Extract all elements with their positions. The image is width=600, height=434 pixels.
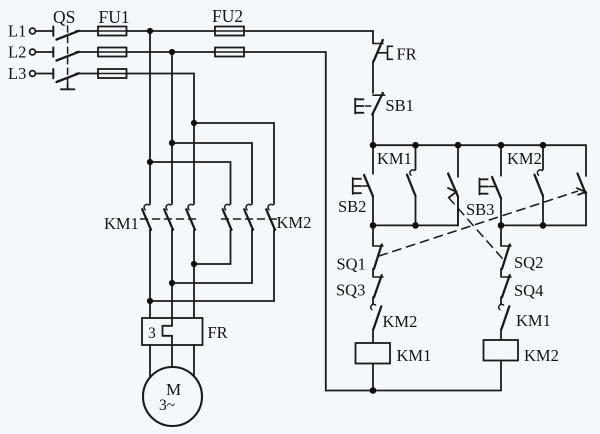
KM1 main linkage dashed [141, 218, 200, 220]
wire KM1 coil to bottom bus [372, 364, 374, 391]
limit switch SQ3 NC [373, 275, 383, 304]
wire branch2 upper [415, 145, 417, 169]
wire L2 to KM2 pole2 [172, 143, 252, 204]
wire L1 FU1 to FU2 [127, 30, 216, 32]
wire control top bus [373, 144, 586, 146]
node L1 terminal [30, 28, 36, 34]
SB1 actuator E [355, 99, 371, 114]
wire L2 to QS [36, 51, 54, 53]
wire FR to motor left [149, 345, 151, 377]
wire left rail [325, 52, 327, 391]
switch QS pole 1 [53, 27, 79, 40]
svg-text:SQ4: SQ4 [514, 281, 543, 300]
wire L1 to QS [36, 30, 54, 32]
SQ2 NO arrow [448, 188, 456, 198]
contactor KM2 main contact 3 [266, 204, 275, 301]
wire bottom bus [326, 390, 501, 392]
svg-text:SB3: SB3 [466, 200, 494, 219]
svg-text:KM1: KM1 [397, 346, 432, 365]
wire L3 FU1 to corner [127, 73, 195, 75]
wire L2 FU2 to left rail [244, 51, 326, 53]
svg-text:SQ2: SQ2 [514, 253, 543, 272]
pushbutton SB3 NO [492, 177, 501, 225]
FR heater element [163, 318, 173, 345]
wire branch3 upper [457, 145, 459, 177]
svg-text:FU2: FU2 [212, 6, 243, 26]
svg-text:KM2: KM2 [277, 213, 312, 232]
fuse FU1 pole3 [98, 69, 127, 78]
wire FR to motor mid [171, 345, 173, 367]
limit switch SQ2 NC [501, 245, 511, 277]
wire branch5 upper [542, 145, 544, 169]
FR heater hook symbol [378, 46, 393, 59]
QS linkage dashed [61, 26, 75, 89]
switch QS pole 2 [53, 48, 79, 61]
SB2 actuator E [353, 178, 368, 194]
wire SQ1 upper [372, 225, 374, 245]
wire lower bus left [373, 196, 458, 225]
linkage dashed SQ2 [449, 198, 504, 260]
SQ1 NO arrow [577, 188, 586, 195]
svg-text:KM2: KM2 [383, 312, 418, 331]
contactor KM2 aux NO contact [535, 170, 544, 226]
wire KM2 out3 cross [150, 300, 274, 302]
wire lower bus right [501, 224, 586, 226]
coil KM1 [356, 343, 391, 364]
wire QS to FU1 L3 [76, 73, 98, 75]
wire L3 to QS [36, 73, 54, 75]
switch QS pole 3 [53, 69, 79, 82]
svg-text:SB2: SB2 [338, 197, 366, 216]
svg-text:3: 3 [148, 325, 156, 342]
wire KM2 out2 cross [172, 282, 252, 284]
coil KM2 [484, 340, 519, 361]
motor M circle [143, 367, 202, 426]
wire L1 to KM2 pole1 [150, 162, 231, 204]
svg-text:3~: 3~ [159, 397, 175, 414]
svg-text:FR: FR [397, 45, 417, 64]
wire L3 to KM2 pole3 [194, 123, 274, 204]
fuse FU2 pole2 [215, 48, 244, 57]
fuse FU2 pole1 [215, 27, 244, 36]
wire L1 FU2 to control column [244, 30, 373, 32]
wire QS to FU1 L1 [76, 30, 98, 32]
linkage dashed SQ1 [379, 191, 578, 256]
pushbutton SB2 NO [364, 175, 373, 225]
svg-text:L2: L2 [8, 43, 26, 62]
pushbutton SB1 NC [372, 93, 384, 145]
contactor KM1 aux NO contact [407, 170, 416, 226]
svg-text:KM1: KM1 [516, 311, 551, 330]
wire KM2 out1 cross [194, 263, 231, 265]
wire QS to FU1 L2 [76, 51, 98, 53]
fuse FU1 pole2 [98, 48, 127, 57]
contactor KM1 main contact 3 [186, 204, 195, 318]
contactor KM2 NC interlock [371, 304, 382, 343]
contactor KM1 NC interlock [499, 304, 510, 340]
node L2 terminal [30, 49, 36, 55]
thermal relay FR box [142, 318, 203, 345]
wire KM2 coil to bottom bus [500, 361, 502, 391]
svg-text:QS: QS [53, 7, 75, 27]
svg-text:SB1: SB1 [386, 96, 414, 115]
wire L2 FU1 to FU2 [127, 51, 216, 53]
wire FR to motor right [193, 345, 195, 376]
SB3 actuator E [480, 179, 495, 195]
limit switch SQ2 NO contact [448, 174, 458, 226]
contactor KM2 main contact 1 [223, 204, 232, 264]
node L3 terminal [30, 71, 36, 77]
wire branch4 upper [500, 145, 502, 176]
limit switch SQ1 NO contact [578, 174, 587, 226]
FR NC contact in control [373, 31, 383, 93]
svg-text:FU1: FU1 [99, 7, 130, 27]
contactor KM2 main contact 2 [244, 204, 253, 283]
contactor KM1 main contact 2 [164, 204, 173, 318]
svg-text:KM1: KM1 [377, 149, 412, 168]
contactor KM1 main contact 1 [142, 204, 151, 318]
fuse FU1 pole1 [98, 27, 127, 36]
wire branch6 right edge [585, 145, 587, 176]
svg-text:SQ3: SQ3 [336, 281, 365, 300]
wire L1 drop [149, 31, 151, 204]
svg-text:KM1: KM1 [104, 214, 139, 233]
svg-text:FR: FR [208, 323, 228, 342]
svg-text:L1: L1 [8, 22, 26, 41]
wire L3 drop [193, 74, 195, 205]
KM2 main linkage dashed [222, 218, 279, 220]
limit switch SQ4 NC [501, 275, 511, 304]
limit switch SQ1 NC [373, 245, 383, 277]
svg-text:KM2: KM2 [507, 149, 542, 168]
wire SQ2 upper [500, 225, 502, 245]
svg-text:KM2: KM2 [524, 346, 559, 365]
svg-text:SQ1: SQ1 [337, 255, 366, 274]
svg-text:L3: L3 [8, 64, 26, 83]
wire branch1 upper [372, 145, 374, 174]
wire L2 drop [171, 52, 173, 204]
